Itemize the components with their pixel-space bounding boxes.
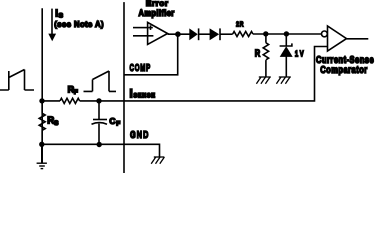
IC boundary line — [123, 2, 125, 173]
svg-text:(see Note A): (see Note A) — [54, 19, 104, 28]
diode D2 — [210, 28, 220, 40]
comparator U2 current-sense — [322, 26, 369, 51]
wire Is (left vertical rail) — [41, 8, 43, 162]
svg-text:2R: 2R — [236, 21, 244, 29]
node G (zener top) — [284, 31, 289, 36]
node A (ISENSE / RF junction) — [39, 98, 44, 103]
wire — [199, 33, 210, 35]
svg-text:R: R — [255, 49, 260, 60]
resistor RS — [39, 101, 45, 144]
current arrow Is — [48, 9, 56, 42]
svg-text:S: S — [54, 120, 59, 127]
node C (RS / GND-line junction) — [39, 142, 44, 147]
svg-text:I: I — [130, 88, 133, 100]
wire — [220, 33, 233, 35]
node D (CF / GND-line junction) — [97, 142, 102, 147]
svg-text:S: S — [59, 13, 64, 20]
waveform pulse (filtered ISENSE ramp) — [84, 71, 117, 91]
svg-text:F: F — [116, 120, 120, 127]
ground (earth, bottom left) — [37, 144, 47, 168]
op-amp U1 error amplifier — [133, 22, 190, 44]
wire GND line — [42, 144, 160, 156]
label 2R — [236, 21, 244, 29]
ground (chassis, under zener) — [276, 77, 290, 84]
svg-text:COMP: COMP — [130, 61, 152, 73]
node E (op-amp output) — [175, 31, 181, 37]
zener diode 1V — [280, 34, 293, 77]
node F (R top) — [263, 31, 268, 36]
svg-text:GND: GND — [130, 129, 150, 141]
wire ISENSE (to comparator input riser) — [99, 47, 328, 101]
waveform pulse (switch current with leading-edge spike) — [0, 70, 34, 91]
wire — [253, 33, 322, 35]
label 1V — [295, 49, 304, 58]
diode D1 — [189, 28, 198, 40]
wire COMP pin trace — [124, 34, 178, 75]
capacitor CF — [92, 101, 108, 145]
label (see Note A) — [54, 19, 104, 28]
ground (chassis, GND pin) — [151, 157, 164, 164]
svg-text:1 V: 1 V — [295, 49, 304, 58]
resistor RF — [42, 98, 99, 103]
svg-text:Comparator: Comparator — [320, 64, 368, 75]
svg-text:SENSE: SENSE — [134, 93, 156, 99]
resistor R — [263, 34, 268, 77]
svg-text:Amplifier: Amplifier — [139, 7, 175, 18]
pin label GND — [130, 129, 150, 141]
ground (chassis, under R) — [256, 77, 270, 84]
node B (RF / CF junction) — [96, 98, 101, 103]
label Current-Sense Comparator — [316, 54, 374, 65]
resistor 2R — [233, 32, 253, 37]
svg-text:C: C — [109, 116, 115, 126]
pin label COMP — [130, 61, 152, 73]
svg-text:F: F — [74, 89, 78, 96]
